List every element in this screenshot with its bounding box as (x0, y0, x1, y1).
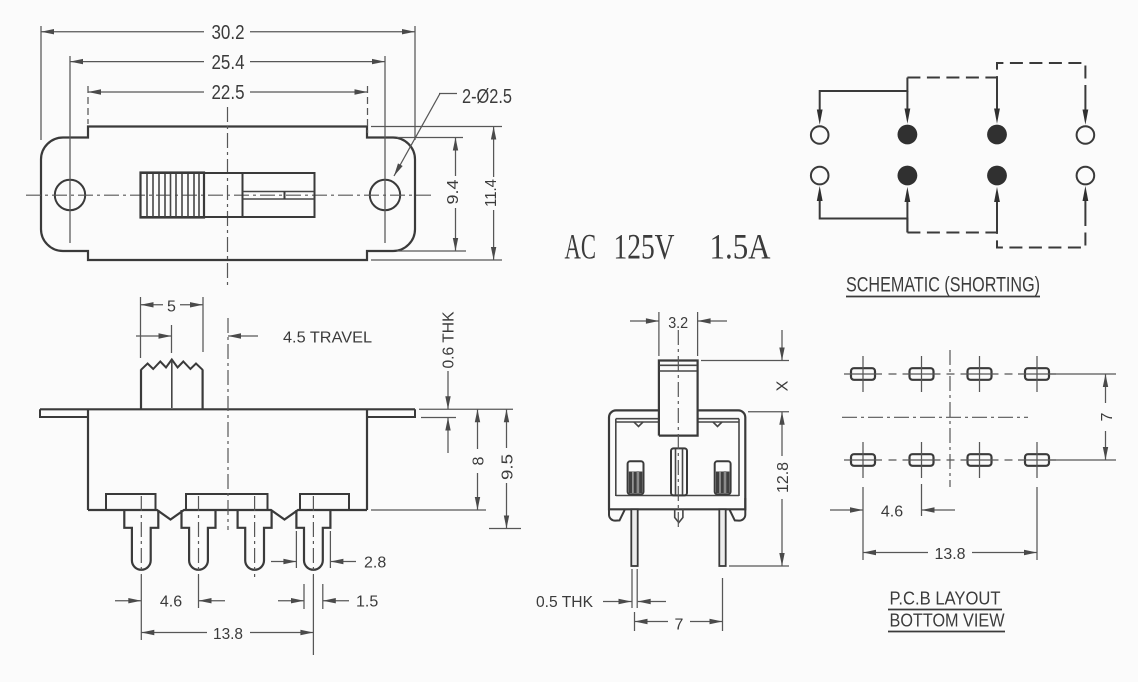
arrow into terminal 5 (817, 186, 823, 201)
arrow into terminal 8 (1084, 199, 1086, 215)
center post (671, 448, 687, 495)
arrow into terminal 2 (906, 91, 908, 111)
knurl lines (147, 174, 199, 217)
knurled knob front (141, 173, 205, 218)
dimension 22.5 (88, 81, 368, 133)
right foot (730, 498, 746, 521)
svg-text:0.6 THK: 0.6 THK (441, 311, 458, 368)
pad r1c1 (851, 368, 875, 380)
inner wall right (738, 419, 740, 496)
arrow into terminal 6 (906, 199, 908, 233)
mounting hole left (55, 180, 85, 210)
svg-text:7: 7 (1099, 412, 1116, 421)
dimension 25.4 (70, 51, 385, 74)
vertical centerline front view (227, 107, 229, 287)
inner top notch right (713, 422, 722, 427)
terminal 5 (open) (811, 167, 829, 185)
pin 2 side view (182, 510, 216, 570)
slider slot outline (141, 173, 315, 217)
svg-text:2.8: 2.8 (364, 555, 386, 572)
left foot (609, 498, 625, 521)
arrow into terminal 7 (996, 199, 998, 233)
dimension X (701, 330, 792, 412)
left contact outline (628, 461, 644, 494)
svg-text:3.2: 3.2 (668, 315, 688, 332)
pad r2c4 (1025, 454, 1049, 466)
arrow into terminal 4 (1084, 94, 1086, 113)
svg-text:0.5 THK: 0.5 THK (536, 594, 593, 611)
dimension 13.8 (pcb) (863, 487, 1037, 563)
boss 1 (106, 494, 156, 510)
center post inner lines (675, 449, 677, 495)
dimension 0.6 THK (419, 311, 513, 453)
dimension 4.6 (side view) (115, 594, 225, 611)
svg-text:2-Ø2.5: 2-Ø2.5 (462, 85, 512, 108)
wire solid top bus (820, 78, 908, 114)
pcb horizontal centerline (842, 416, 1028, 418)
svg-text:30.2: 30.2 (212, 21, 245, 44)
svg-text:4.5 TRAVEL: 4.5 TRAVEL (283, 330, 372, 347)
svg-text:7: 7 (675, 617, 684, 634)
svg-text:SCHEMATIC (SHORTING): SCHEMATIC (SHORTING) (846, 274, 1040, 297)
pin 1 centerline / 13.8 extension (140, 496, 142, 575)
svg-text:8: 8 (471, 456, 488, 465)
left hole crosshair / 25.4 extension (69, 56, 71, 243)
dimension 4.6 (pcb) (830, 484, 955, 560)
travel centerline (227, 318, 229, 530)
right hole crosshair / 25.4 extension (384, 56, 386, 243)
svg-text:22.5: 22.5 (212, 81, 245, 104)
dimension 8 (371, 409, 488, 510)
body right edge (366, 409, 368, 510)
svg-text:4.6: 4.6 (160, 594, 182, 611)
inner shelf (616, 495, 739, 497)
dimension 1.5 (278, 584, 378, 611)
pad crosshairs (844, 356, 1056, 478)
knob top chamfer line (660, 364, 698, 366)
left contact spring (dark) (629, 472, 643, 494)
svg-text:12.8: 12.8 (775, 462, 792, 493)
arrow into terminal 1 (817, 110, 823, 125)
svg-text:13.8: 13.8 (935, 546, 966, 563)
svg-text:AC125V1.5A: AC125V1.5A (565, 227, 771, 267)
svg-text:25.4: 25.4 (212, 51, 245, 74)
dimension 7 (end view) (635, 578, 723, 634)
knob end view (659, 361, 698, 436)
end view body outline (609, 410, 745, 509)
wire dashed bottom bus (907, 215, 1085, 248)
pad r1c2 (910, 368, 934, 380)
pad r2c2 (910, 454, 934, 466)
terminal 8 (open) (1077, 167, 1095, 185)
dimension 13.8 (side view) (141, 626, 313, 643)
boss 3 (300, 494, 349, 510)
arrow into terminal 3 (996, 78, 998, 112)
end view vertical centerline (677, 330, 679, 528)
wire solid bottom bus (820, 197, 908, 233)
knob serrated top (141, 360, 203, 370)
knob center rib (171, 361, 173, 409)
mounting hole right (370, 180, 400, 210)
dimension 2.8 (271, 531, 386, 572)
gap over knob (body top hidden behind knob) (660, 408, 697, 413)
pad r1c3 (968, 368, 992, 380)
left pin end view (631, 509, 637, 566)
terminal 6 (common, filled) (898, 166, 918, 186)
svg-text:X: X (775, 380, 792, 391)
boss 2 (186, 494, 268, 510)
pin 4 side view (296, 510, 330, 570)
inter-pad centerline dashes (889, 374, 1013, 460)
dimension 9.4 (397, 138, 466, 252)
dimension 3.2 (630, 312, 727, 356)
svg-text:13.8: 13.8 (213, 626, 243, 643)
wire dashed top bus (907, 63, 1085, 94)
terminal 2 (common, filled) (898, 125, 918, 145)
svg-text:9.4: 9.4 (445, 179, 462, 204)
pin 3 centerline (254, 496, 256, 577)
dimension 9.5 (489, 409, 521, 528)
inner top lines (616, 419, 739, 422)
dimension 12.8 (729, 412, 792, 566)
dimension 5 (141, 297, 204, 358)
pad r2c3 (968, 454, 992, 466)
pad r2c1 (851, 454, 875, 466)
terminal 1 (open) (811, 126, 829, 144)
body bottom edge with V notches (88, 510, 367, 520)
slider right section edge (242, 173, 244, 217)
svg-text:BOTTOM VIEW: BOTTOM VIEW (890, 611, 1005, 631)
row extension lines right (1050, 373, 1116, 375)
right pin end view (719, 509, 725, 566)
right contact spring (dark) (716, 472, 730, 494)
inner wall left (615, 419, 617, 496)
label 2-dia2.5 with leader (394, 85, 512, 176)
pin 3 side view (238, 510, 272, 570)
pin 1 side view (124, 510, 158, 570)
body left edge (87, 409, 89, 510)
flange left tip (40, 409, 88, 417)
svg-text:9.5: 9.5 (499, 454, 516, 480)
pcb pads (851, 368, 1049, 466)
svg-text:11.4: 11.4 (483, 179, 500, 207)
knob cap band line (660, 370, 698, 372)
center stub pin (675, 509, 683, 522)
terminal 4 (open) (1077, 126, 1095, 144)
knob side view left edge (140, 370, 142, 410)
schematic title underline (846, 296, 1040, 298)
dimension 11.4 (371, 127, 502, 261)
svg-text:P.C.B LAYOUT: P.C.B LAYOUT (890, 589, 1001, 609)
right contact outline (715, 461, 731, 494)
pin 2 centerline / 4.6 extension (198, 496, 200, 575)
pcb vertical centerline (949, 350, 951, 487)
terminal 3 (common, filled) (987, 125, 1007, 145)
dimension 30.2 (41, 21, 415, 140)
slider band lines (243, 191, 315, 193)
bottom view title underline (888, 631, 1005, 633)
horizontal centerline front view (26, 194, 431, 196)
knob side view right edge (202, 370, 204, 410)
svg-text:5: 5 (167, 298, 176, 315)
front view plate outline (41, 127, 415, 261)
svg-text:4.6: 4.6 (881, 504, 903, 521)
dimension 4.5 TRAVEL (136, 325, 372, 353)
inner top notch left (634, 422, 643, 427)
flange right tip (367, 409, 415, 417)
pin 4 centerline / 13.8 extension (312, 496, 314, 575)
pad r1c4 (1025, 368, 1049, 380)
svg-text:1.5: 1.5 (356, 594, 378, 611)
dimension 7 (pcb) (1099, 374, 1116, 460)
flange top edge (40, 408, 415, 410)
terminal 7 (common, filled) (987, 166, 1007, 186)
slider band tick (284, 192, 286, 200)
pcb layout title underline (888, 609, 1002, 611)
dimension 0.5 THK (536, 569, 666, 611)
